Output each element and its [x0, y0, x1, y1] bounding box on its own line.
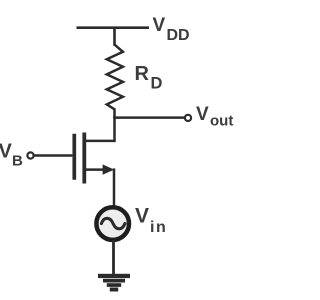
wire: output node to Vout terminal	[113, 116, 184, 119]
resistor RD	[107, 45, 123, 110]
terminal VB	[27, 152, 33, 158]
svg-text:V: V	[153, 15, 166, 36]
source arrow	[103, 164, 115, 174]
wire: resistor bottom to output node	[113, 108, 116, 118]
ac source Vin	[96, 207, 129, 240]
label Vout	[196, 104, 233, 130]
ground	[98, 274, 130, 292]
label Vin	[135, 205, 167, 237]
label VDD	[153, 15, 190, 44]
channel bar	[82, 133, 86, 184]
wire: drain lead up to output node	[113, 116, 116, 142]
gate bar	[72, 134, 76, 180]
wire: VB terminal to gate	[34, 154, 73, 156]
sine wave	[101, 218, 125, 229]
label VB	[0, 141, 23, 170]
wire: source corner down to Vin source	[113, 168, 116, 206]
svg-text:V: V	[196, 104, 209, 125]
terminal Vout	[185, 115, 191, 121]
svg-text:out: out	[210, 113, 233, 130]
svg-text:R: R	[135, 63, 150, 85]
svg-text:in: in	[150, 219, 167, 236]
svg-text:B: B	[12, 153, 23, 170]
wire: Vin source to ground	[112, 240, 115, 275]
drain lead	[85, 140, 115, 143]
source lead	[85, 168, 106, 171]
svg-text:DD: DD	[167, 27, 190, 44]
power rail VDD	[77, 26, 150, 29]
svg-text:V: V	[0, 141, 13, 163]
label RD	[135, 63, 163, 93]
wire: rail to resistor top	[113, 28, 116, 46]
transistor M1 (NMOS)	[74, 133, 114, 184]
svg-text:V: V	[135, 205, 149, 228]
svg-text:D: D	[151, 75, 163, 93]
